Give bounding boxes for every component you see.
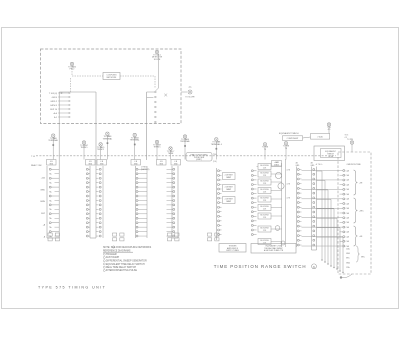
svg-text:BLOCKING: BLOCKING xyxy=(260,181,269,183)
svg-text:DIFFERENTIAL SWEEP GENERATOR: DIFFERENTIAL SWEEP GENERATOR xyxy=(106,260,147,263)
svg-text:SCOPE: SCOPE xyxy=(154,59,161,61)
svg-text:REAL TIME DELAY SWITCH: REAL TIME DELAY SWITCH xyxy=(106,266,136,269)
svg-text:TYPE 575 TIMING UNIT: TYPE 575 TIMING UNIT xyxy=(38,286,106,290)
svg-text:GRID 2: GRID 2 xyxy=(50,101,58,103)
svg-text:-105 B: -105 B xyxy=(51,97,58,99)
svg-text:+105: +105 xyxy=(41,178,45,180)
svg-text:BLOCKING: BLOCKING xyxy=(260,240,269,242)
svg-text:EQUIVALENT: EQUIVALENT xyxy=(325,150,336,153)
svg-text:BLOCKING: BLOCKING xyxy=(260,215,269,217)
svg-text:COMPONENT: COMPONENT xyxy=(287,138,300,140)
svg-text:2.2K FAST: 2.2K FAST xyxy=(225,186,233,189)
svg-text:+ST6R: +ST6R xyxy=(328,156,334,158)
svg-text:BLOCKING: BLOCKING xyxy=(260,173,269,175)
svg-text:+A+: +A+ xyxy=(188,86,191,89)
svg-text:BLOCKING: BLOCKING xyxy=(260,228,269,230)
svg-text:BLOCKING: BLOCKING xyxy=(260,165,269,167)
svg-text:EQUIVALENT TIMECH: EQUIVALENT TIMECH xyxy=(279,132,299,135)
svg-text:SUP 14: SUP 14 xyxy=(50,109,58,111)
svg-text:TO PIN: TO PIN xyxy=(347,139,354,141)
svg-text:FAST RAMP: FAST RAMP xyxy=(106,256,120,259)
svg-text:CATH 5: CATH 5 xyxy=(50,104,58,107)
svg-text:# 6040: # 6040 xyxy=(317,137,323,139)
svg-text:TRIGGER: TRIGGER xyxy=(106,254,117,256)
svg-text:2.2K FAST: 2.2K FAST xyxy=(225,174,233,177)
svg-text:T 105 (4): T 105 (4) xyxy=(49,93,57,95)
svg-text:RAMP: RAMP xyxy=(226,188,232,191)
svg-text:BLOCKING: BLOCKING xyxy=(260,206,269,208)
svg-text:TO SCOPE: TO SCOPE xyxy=(185,97,195,99)
svg-text:BLOCKING: BLOCKING xyxy=(260,189,269,191)
svg-text:(6SN7): (6SN7) xyxy=(196,159,202,161)
svg-text:GRID: GRID xyxy=(40,189,45,191)
svg-text:A LATCHED TUBES CTB: A LATCHED TUBES CTB xyxy=(264,249,284,252)
svg-text:BLOCKING: BLOCKING xyxy=(260,198,269,200)
svg-text:(GND): (GND) xyxy=(274,164,279,166)
svg-text:SUPPLY TUBES: SUPPLY TUBES xyxy=(226,250,239,252)
svg-text:+VEC: +VEC xyxy=(359,210,364,212)
svg-text:T 14: T 14 xyxy=(31,156,35,158)
svg-text:(T-4): (T-4) xyxy=(213,161,217,163)
svg-text:CATH: CATH xyxy=(40,200,46,203)
svg-text:GND: GND xyxy=(346,253,351,255)
svg-text:- 6 T 6 6 -: - 6 T 6 6 - xyxy=(315,164,323,166)
svg-text:TIME POSITION RANGE SWITCH: TIME POSITION RANGE SWITCH xyxy=(214,264,307,269)
svg-text:RAMP: RAMP xyxy=(226,176,232,179)
svg-text:VEC: VEC xyxy=(361,257,366,259)
svg-text:OMICRON TIME: OMICRON TIME xyxy=(347,164,362,166)
svg-text:INTERCONNECTING PULSE: INTERCONNECTING PULSE xyxy=(106,270,137,272)
svg-text:2.2K FAST: 2.2K FAST xyxy=(225,198,233,201)
svg-text:NETWORK: NETWORK xyxy=(107,77,117,79)
svg-text:RAMP: RAMP xyxy=(226,200,232,203)
svg-text:NOTE: SEE FOR DECOUPLING N: NOTE: SEE FOR DECOUPLING NETWORKS xyxy=(103,247,152,249)
svg-text:REAL T. SW: REAL T. SW xyxy=(31,164,42,167)
svg-text:EQUIVALENT TIME DELAY SWITCH: EQUIVALENT TIME DELAY SWITCH xyxy=(106,263,145,266)
svg-text:REFERENCE DIAGRAMS: REFERENCE DIAGRAMS xyxy=(103,249,131,252)
svg-text:GND: GND xyxy=(346,262,351,264)
